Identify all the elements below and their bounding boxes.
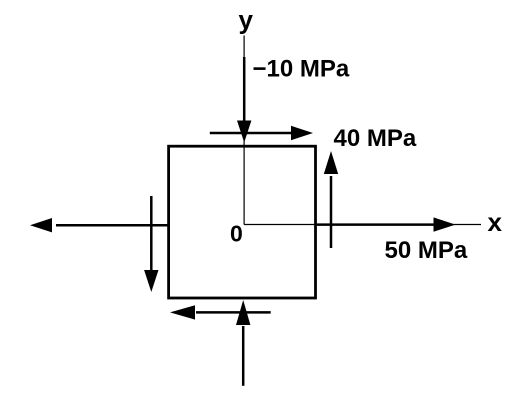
svg-text:x: x [488, 207, 503, 237]
arrow shear right face (40 MPa, pointing up) [324, 151, 338, 248]
arrow sigma-x left (pointing left) [30, 218, 169, 232]
svg-text:0: 0 [230, 221, 243, 247]
arrow sigma-y top (-10 MPa, pointing down) [237, 57, 251, 143]
svg-text:−10 MPa: −10 MPa [253, 55, 350, 82]
y axis line [243, 36, 245, 225]
svg-text:y: y [239, 5, 254, 35]
svg-text:50 MPa: 50 MPa [385, 237, 468, 264]
stress element square [169, 146, 316, 298]
arrow shear bottom face (pointing left) [170, 305, 271, 319]
arrow shear top face (pointing right) [210, 126, 313, 140]
x axis line [244, 224, 481, 226]
arrow sigma-x right (50 MPa, pointing right) [317, 217, 456, 231]
arrow sigma-y bottom (pointing up) [236, 300, 250, 386]
arrow shear left face (pointing down) [144, 196, 158, 292]
svg-text:40 MPa: 40 MPa [334, 125, 417, 152]
